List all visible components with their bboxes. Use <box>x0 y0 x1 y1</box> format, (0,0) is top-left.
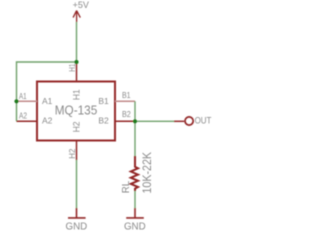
pin A1 <box>17 100 38 102</box>
wire junction to OUT <box>135 120 174 122</box>
pin A2 <box>17 120 38 122</box>
wire junction to left rail <box>17 62 77 121</box>
svg-text:B2: B2 <box>98 115 109 125</box>
wire +5V to junction <box>76 22 78 62</box>
junction top <box>74 60 78 64</box>
svg-text:H2: H2 <box>68 148 77 159</box>
svg-text:B1: B1 <box>122 91 131 100</box>
connector OUT pin <box>174 120 184 122</box>
pin B1 <box>115 100 135 102</box>
svg-text:+5V: +5V <box>73 0 89 10</box>
svg-text:GND: GND <box>124 221 146 232</box>
wire junction to resistor <box>134 121 136 156</box>
svg-text:10K-22K: 10K-22K <box>142 152 154 194</box>
svg-text:A1: A1 <box>42 96 53 106</box>
junction A1 <box>14 99 18 103</box>
resistor RL zigzag <box>131 156 138 191</box>
connector OUT circle <box>185 117 193 125</box>
pin B2 <box>115 120 135 122</box>
svg-text:A1: A1 <box>19 92 27 101</box>
svg-text:B2: B2 <box>122 110 131 119</box>
pin H1 <box>76 62 78 82</box>
ground right symbol <box>126 208 144 218</box>
svg-text:H1: H1 <box>72 89 82 100</box>
svg-text:H2: H2 <box>72 121 82 132</box>
IC U1 MQ-135 box <box>37 82 115 141</box>
svg-text:H1: H1 <box>68 63 77 72</box>
svg-text:OUT: OUT <box>195 116 212 127</box>
svg-text:GND: GND <box>66 221 88 232</box>
ground left symbol <box>68 208 86 218</box>
svg-text:RL: RL <box>121 180 132 193</box>
power +5V arrow symbol <box>73 11 80 22</box>
svg-text:B1: B1 <box>98 96 109 106</box>
junction B2 <box>133 119 137 123</box>
pin H2 <box>76 141 78 161</box>
svg-text:MQ-135: MQ-135 <box>55 103 98 118</box>
svg-text:A2: A2 <box>19 112 27 121</box>
svg-text:A2: A2 <box>42 115 53 125</box>
wire B1 to B2 junction <box>134 101 136 121</box>
wire H2 to GND <box>76 160 78 208</box>
wire resistor to GND <box>134 191 136 208</box>
